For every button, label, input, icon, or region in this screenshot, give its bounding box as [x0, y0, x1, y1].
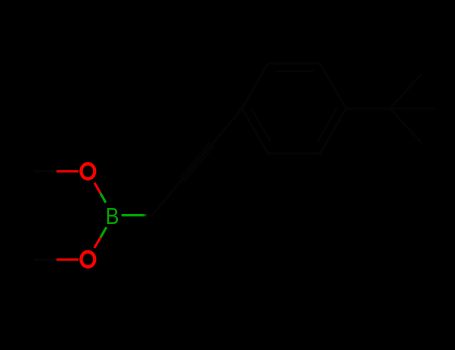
tert-butyl methyl 3 (dark) — [390, 109, 422, 144]
benzene ring (dark) — [242, 64, 346, 154]
aromatic inline line 3 — [251, 109, 270, 142]
atom O1 (top methoxy oxygen) — [81, 164, 95, 179]
bond O2-B boron half (green) — [101, 227, 107, 237]
bond O1-CH3 oxygen half (red) — [57, 170, 79, 172]
tert-butyl methyl 1 (dark) — [390, 74, 422, 109]
bond O1-B oxygen half (red) — [95, 183, 101, 193]
bond C1-C2 (dark) — [152, 180, 182, 216]
svg-text:B: B — [106, 203, 120, 229]
bond ring-para substituent (dark) — [346, 107, 390, 109]
bond O1-CH3 methyl carbon half (dark) — [34, 170, 57, 172]
triple bond C2-C3 (dark) — [182, 144, 212, 180]
aromatic inner line 1 — [276, 70, 315, 72]
bond B-C1 boron half (green, fading) — [122, 214, 144, 216]
bond O2-CH3 oxygen half (red) — [57, 258, 79, 260]
bond B-C1 carbon half (dark) — [147, 214, 152, 216]
bond O1-B boron half (green) — [100, 193, 105, 203]
bond C3-C4 to ring (dark) — [212, 109, 242, 145]
atom O2 (bottom methoxy oxygen) — [81, 252, 95, 267]
tert-butyl methyl 2 (dark) — [390, 107, 436, 109]
bond O2-B oxygen half (red) — [94, 237, 100, 248]
bond O2-CH3 methyl carbon half (dark) — [34, 258, 57, 260]
aromatic inner line 2 — [318, 109, 337, 142]
